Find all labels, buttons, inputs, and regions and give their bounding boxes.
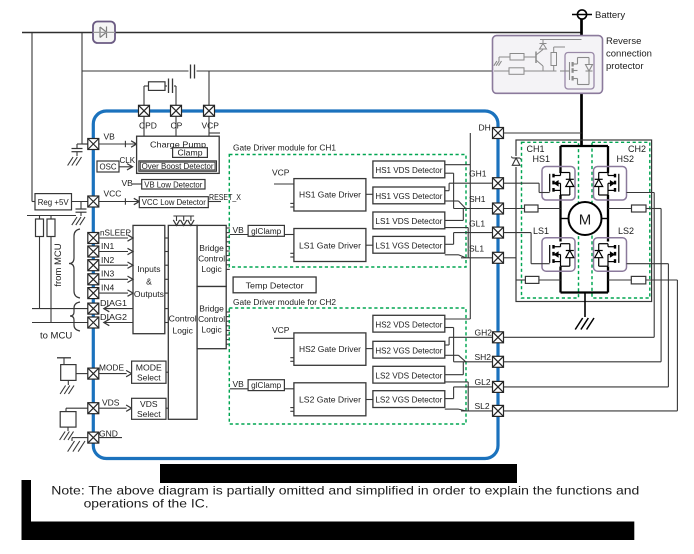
svg-text:operations of the IC.: operations of the IC.: [84, 498, 209, 511]
svg-text:LS2: LS2: [618, 226, 634, 236]
svg-text:HS2 VDS Detector: HS2 VDS Detector: [375, 320, 442, 329]
svg-text:DIAG1: DIAG1: [100, 298, 127, 308]
svg-text:Outputs: Outputs: [134, 289, 164, 299]
svg-text:Inputs: Inputs: [137, 264, 160, 274]
svg-text:SH1: SH1: [469, 194, 486, 204]
svg-text:CPD: CPD: [139, 121, 157, 131]
svg-text:Select: Select: [137, 373, 161, 383]
svg-text:CP: CP: [171, 121, 183, 131]
svg-text:glClamp: glClamp: [251, 227, 282, 236]
svg-text:VDS: VDS: [140, 399, 158, 409]
svg-text:GL2: GL2: [475, 377, 491, 387]
svg-text:IN4: IN4: [101, 282, 115, 292]
svg-text:HS1 Gate Driver: HS1 Gate Driver: [299, 190, 361, 200]
svg-text:VB: VB: [122, 178, 134, 188]
svg-text:Gate Driver module for CH1: Gate Driver module for CH1: [233, 143, 336, 153]
svg-text:HS1: HS1: [533, 154, 551, 164]
svg-text:VB: VB: [233, 379, 245, 389]
svg-text:LS1 Gate Driver: LS1 Gate Driver: [299, 240, 361, 250]
svg-text:HS2: HS2: [616, 154, 634, 164]
svg-text:Clamp: Clamp: [178, 148, 203, 158]
svg-text:VB Low Detector: VB Low Detector: [144, 180, 202, 189]
svg-text:Control: Control: [198, 314, 225, 324]
svg-text:IN3: IN3: [101, 269, 115, 279]
svg-text:LS2 VDS Detector: LS2 VDS Detector: [375, 371, 442, 380]
svg-text:DH: DH: [479, 123, 491, 133]
svg-text:CH1: CH1: [527, 144, 545, 154]
svg-text:Control: Control: [198, 254, 225, 264]
svg-text:LS1 VDS Detector: LS1 VDS Detector: [375, 217, 442, 226]
svg-text:Battery: Battery: [595, 10, 625, 21]
svg-text:VCP: VCP: [202, 121, 220, 131]
svg-text:VCP: VCP: [272, 168, 290, 178]
svg-text:LS2 VGS Detector: LS2 VGS Detector: [375, 396, 442, 405]
svg-text:GND: GND: [99, 429, 118, 439]
svg-text:DIAG2: DIAG2: [100, 312, 127, 322]
svg-text:VB: VB: [104, 132, 116, 142]
svg-text:Gate Driver module for CH2: Gate Driver module for CH2: [233, 297, 336, 307]
svg-text:Logic: Logic: [173, 326, 194, 336]
svg-text:Reg +5V: Reg +5V: [38, 197, 69, 207]
svg-text:VCC Low Detector: VCC Low Detector: [142, 198, 206, 207]
svg-text:connection: connection: [606, 49, 652, 60]
svg-text:LS1: LS1: [533, 226, 549, 236]
svg-text:Logic: Logic: [201, 264, 222, 274]
svg-text:GL1: GL1: [469, 219, 485, 229]
svg-text:glClamp: glClamp: [251, 381, 282, 390]
svg-text:Over Boost Detector: Over Boost Detector: [142, 162, 214, 171]
svg-text:to MCU: to MCU: [40, 331, 72, 342]
svg-text:SL2: SL2: [475, 401, 490, 411]
svg-text:M: M: [579, 212, 592, 229]
svg-text:VCC: VCC: [104, 189, 122, 199]
svg-text:VDS: VDS: [102, 398, 120, 408]
svg-text:OSC: OSC: [100, 162, 117, 172]
svg-text:SL1: SL1: [469, 244, 484, 254]
svg-text:GH2: GH2: [475, 328, 493, 338]
svg-text:GH1: GH1: [469, 169, 487, 179]
svg-text:protector: protector: [606, 61, 644, 72]
svg-text:HS1 VGS Detector: HS1 VGS Detector: [375, 192, 442, 201]
svg-text:Control: Control: [169, 314, 197, 324]
svg-text:from MCU: from MCU: [53, 243, 64, 286]
svg-text:HS2 VGS Detector: HS2 VGS Detector: [375, 346, 442, 355]
svg-text:HS2 Gate Driver: HS2 Gate Driver: [299, 344, 361, 354]
svg-text:IN1: IN1: [101, 241, 115, 251]
svg-text:Bridge: Bridge: [199, 243, 224, 253]
svg-text:Reverse: Reverse: [606, 36, 641, 47]
svg-text:LS1 VGS Detector: LS1 VGS Detector: [375, 241, 442, 250]
svg-text:RESET_X: RESET_X: [209, 192, 241, 202]
svg-text:IN2: IN2: [101, 255, 115, 265]
svg-text:Temp Detector: Temp Detector: [246, 280, 304, 290]
svg-text:Note: The above diagram is par: Note: The above diagram is partially omi…: [51, 485, 639, 498]
svg-text:Select: Select: [137, 409, 161, 419]
svg-text:SH2: SH2: [475, 352, 492, 362]
svg-text:HS1 VDS Detector: HS1 VDS Detector: [375, 166, 442, 175]
svg-text:Logic: Logic: [201, 325, 222, 335]
svg-text:LS2 Gate Driver: LS2 Gate Driver: [299, 395, 361, 405]
svg-text:CH2: CH2: [628, 144, 646, 154]
svg-text:MODE: MODE: [99, 363, 124, 373]
svg-text:Bridge: Bridge: [199, 304, 224, 314]
svg-text:nSLEEP: nSLEEP: [100, 228, 131, 238]
svg-text:&: &: [146, 277, 152, 287]
svg-text:VB: VB: [233, 225, 245, 235]
svg-text:MODE: MODE: [136, 363, 162, 373]
svg-text:VCP: VCP: [272, 325, 290, 335]
